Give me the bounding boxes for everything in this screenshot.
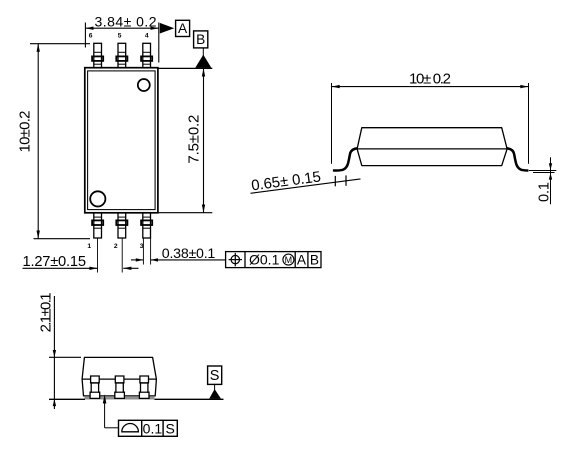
svg-text:S: S bbox=[166, 420, 175, 436]
svg-text:0.38±0.1: 0.38±0.1 bbox=[162, 246, 216, 262]
svg-text:10± 0.2: 10± 0.2 bbox=[409, 70, 451, 87]
svg-text:S: S bbox=[210, 368, 220, 384]
svg-text:Ø0.1: Ø0.1 bbox=[249, 252, 280, 268]
svg-text:0.65± 0.15: 0.65± 0.15 bbox=[250, 168, 322, 194]
svg-text:6: 6 bbox=[89, 33, 93, 40]
svg-text:1: 1 bbox=[87, 243, 91, 250]
svg-text:10±0.2: 10±0.2 bbox=[17, 111, 34, 153]
svg-text:0.1: 0.1 bbox=[143, 420, 163, 436]
svg-text:A: A bbox=[178, 21, 188, 36]
svg-text:2: 2 bbox=[114, 243, 118, 250]
svg-text:4: 4 bbox=[145, 33, 149, 40]
svg-text:B: B bbox=[310, 253, 319, 268]
svg-text:0.1: 0.1 bbox=[536, 182, 552, 202]
svg-text:A: A bbox=[297, 253, 307, 268]
svg-text:2.1±0.1: 2.1±0.1 bbox=[38, 292, 55, 332]
svg-text:5: 5 bbox=[118, 33, 122, 40]
svg-text:7.5±0.2: 7.5±0.2 bbox=[186, 115, 203, 164]
svg-text:B: B bbox=[196, 32, 205, 47]
svg-text:3.84± 0.2: 3.84± 0.2 bbox=[95, 14, 157, 30]
svg-text:M: M bbox=[285, 255, 293, 265]
svg-text:1.27±0.15: 1.27±0.15 bbox=[23, 254, 87, 270]
